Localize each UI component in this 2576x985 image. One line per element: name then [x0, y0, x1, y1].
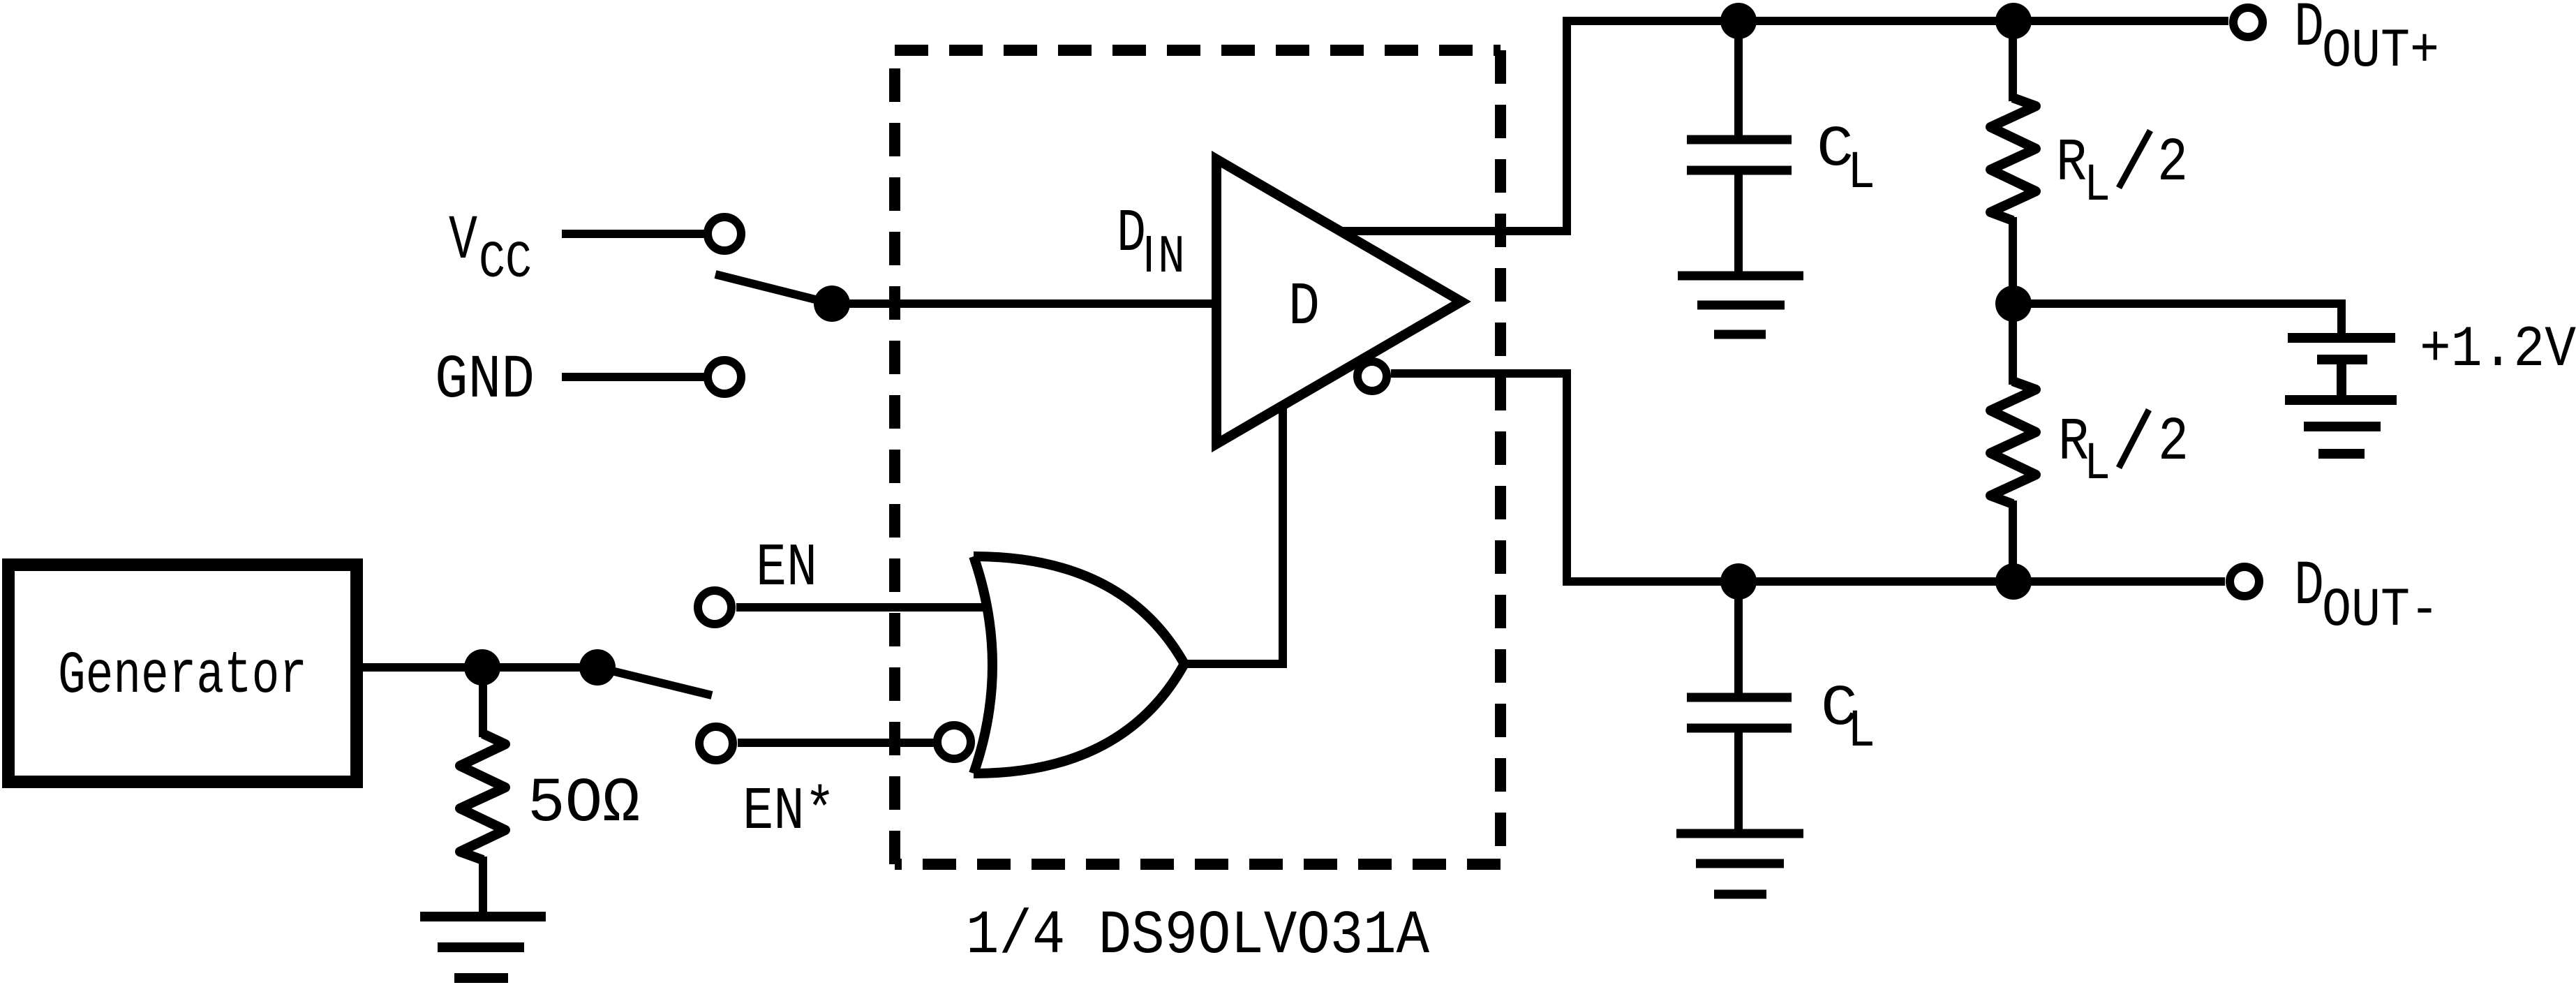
svg-text:+1.2V: +1.2V [2420, 317, 2576, 383]
wire inverting output [1391, 373, 2225, 582]
wire OR gate to triangle [1184, 406, 1283, 664]
wire Din input [832, 299, 1216, 308]
inverter bubble driver output [1357, 362, 1387, 391]
svg-text:R: R [2056, 129, 2087, 198]
node dot top rail at RL [1995, 3, 2032, 39]
ground below 50 ohm [420, 917, 546, 978]
node junction dot B [579, 649, 616, 686]
svg-text:OUT+: OUT+ [2322, 21, 2439, 82]
svg-text:D: D [1117, 200, 1146, 268]
svg-text:2: 2 [2157, 129, 2188, 198]
slash RL/2 top [2119, 131, 2150, 188]
svg-text:L: L [1847, 702, 1875, 762]
wire noninverting output [1340, 21, 2228, 231]
terminal circle EN [698, 591, 731, 624]
node dot RL midpoint [1995, 286, 2032, 322]
resistor RL/2 bottom lead [2009, 304, 2017, 385]
capacitor CL top [1687, 21, 1792, 272]
node dot top rail at CL [1720, 3, 1757, 39]
dashed box 1/4 DS90LV031A [895, 50, 1501, 864]
wire GND [562, 373, 705, 381]
svg-text:D: D [2294, 551, 2324, 623]
switch arm generator [597, 667, 712, 695]
wire generator output [357, 663, 600, 672]
resistor RL/2 bottom lead 2 [2009, 501, 2017, 582]
terminal circle EN* [699, 727, 733, 760]
wire battery [2013, 304, 2342, 334]
wire EN [736, 603, 991, 612]
terminal circle Vcc [708, 217, 741, 251]
resistor RL/2 top lead bottom [2009, 217, 2017, 304]
svg-text:EN*: EN* [743, 778, 835, 846]
svg-text:V: V [449, 206, 477, 277]
node junction dot A [464, 649, 500, 686]
resistor RL/2 top lead [2009, 21, 2017, 101]
svg-text:GND: GND [435, 346, 535, 415]
wire EN* [738, 739, 937, 747]
terminal circle Dout- [2230, 567, 2259, 596]
ground CL top [1678, 276, 1803, 334]
resistor 50 ohm [460, 734, 505, 860]
svg-text:2: 2 [2158, 408, 2189, 477]
svg-text:D: D [1288, 273, 1320, 341]
wire Vcc [562, 230, 705, 238]
svg-text:L: L [1847, 143, 1875, 203]
battery +1.2V [2288, 338, 2395, 400]
node dot bottom rail at CL [1720, 563, 1757, 600]
node junction dot Din [814, 286, 850, 322]
ground CL bottom [1676, 834, 1803, 894]
resistor RL/2 bottom [1990, 381, 2036, 504]
terminal circle Dout+ [2233, 8, 2263, 37]
svg-text:N: N [1158, 228, 1185, 288]
node dot bottom rail at RL [1995, 563, 2032, 600]
ground battery [2285, 400, 2397, 454]
wire 50 ohm lead top [479, 667, 487, 737]
generator box [8, 565, 357, 782]
svg-text:L: L [2084, 156, 2110, 216]
driver D triangle [1216, 159, 1461, 444]
svg-text:1/4 DS9OLVO31A: 1/4 DS9OLVO31A [966, 902, 1429, 971]
svg-text:OUT-: OUT- [2322, 580, 2439, 642]
OR gate EN [974, 556, 1184, 773]
svg-text:Generator: Generator [58, 642, 307, 710]
svg-text:CC: CC [479, 234, 532, 292]
resistor RL/2 top [1990, 98, 2036, 221]
svg-text:EN: EN [756, 534, 817, 602]
switch arm Vcc [715, 274, 832, 304]
svg-text:D: D [2294, 0, 2324, 64]
slash RL/2 bottom [2119, 410, 2149, 468]
capacitor CL bottom [1687, 582, 1792, 834]
terminal circle GND [708, 360, 741, 394]
svg-text:5OΩ: 5OΩ [528, 769, 640, 840]
wire 50 ohm lead bottom [479, 857, 487, 917]
svg-text:L: L [2084, 434, 2110, 494]
inverter bubble EN* input [937, 725, 971, 759]
